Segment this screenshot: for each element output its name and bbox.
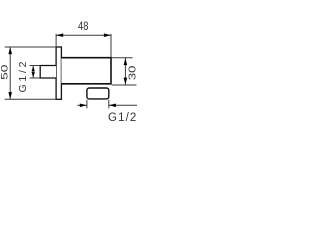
dimension 50: extension line bottom xyxy=(5,98,56,100)
dimension 30: dimension line xyxy=(124,58,126,85)
dimension 30: extension line top xyxy=(112,57,133,59)
dimension 30: bottom arrowhead xyxy=(124,78,128,85)
wall flange plate (side view) xyxy=(56,47,61,99)
dimension 48: extension line right xyxy=(110,34,112,57)
svg-text:50: 50 xyxy=(0,65,11,80)
dimension 50: bottom arrowhead xyxy=(8,92,12,99)
dimension 30: top arrowhead xyxy=(124,58,128,65)
inlet connector G1/2 (left stub) xyxy=(40,66,56,79)
body block xyxy=(61,58,111,84)
outlet thread dimension G1/2: right arrowhead (pointing left) xyxy=(109,104,116,108)
outlet thread dimension G1/2: extension line left xyxy=(86,100,88,109)
dimension 48: extension line left xyxy=(55,34,57,46)
dimension 48: dimension line xyxy=(56,34,111,36)
outlet thread dimension G1/2: extension line right xyxy=(108,100,110,109)
svg-text:30: 30 xyxy=(128,65,139,80)
inlet thread dimension G1/2: extension line bottom xyxy=(30,77,41,79)
inlet thread dimension G1/2: extension line top xyxy=(30,65,41,67)
inlet thread dimension G1/2: bottom arrowhead xyxy=(32,72,35,77)
dimension 50: extension line top xyxy=(5,46,56,48)
outlet thread dimension G1/2: left arrowhead (pointing right) xyxy=(80,104,87,108)
dimension 48: left arrowhead xyxy=(56,33,63,37)
dimension 30: extension line bottom xyxy=(112,84,137,86)
outlet thread dimension G1/2: right leader line xyxy=(109,104,137,106)
outlet nut G1/2 (bottom rounded rectangle) xyxy=(87,88,109,99)
svg-text:G1/2: G1/2 xyxy=(17,61,29,92)
dimension 50: top arrowhead xyxy=(8,47,12,54)
outlet thread dimension G1/2: left leader line xyxy=(77,104,87,106)
inlet thread dimension G1/2: dimension line xyxy=(32,66,34,78)
inlet thread dimension G1/2: top arrowhead xyxy=(32,66,35,71)
dimension 50: dimension line xyxy=(9,47,11,99)
dimension 48: right arrowhead xyxy=(104,33,111,37)
svg-text:G1/2: G1/2 xyxy=(108,112,136,124)
svg-text:48: 48 xyxy=(78,19,89,33)
